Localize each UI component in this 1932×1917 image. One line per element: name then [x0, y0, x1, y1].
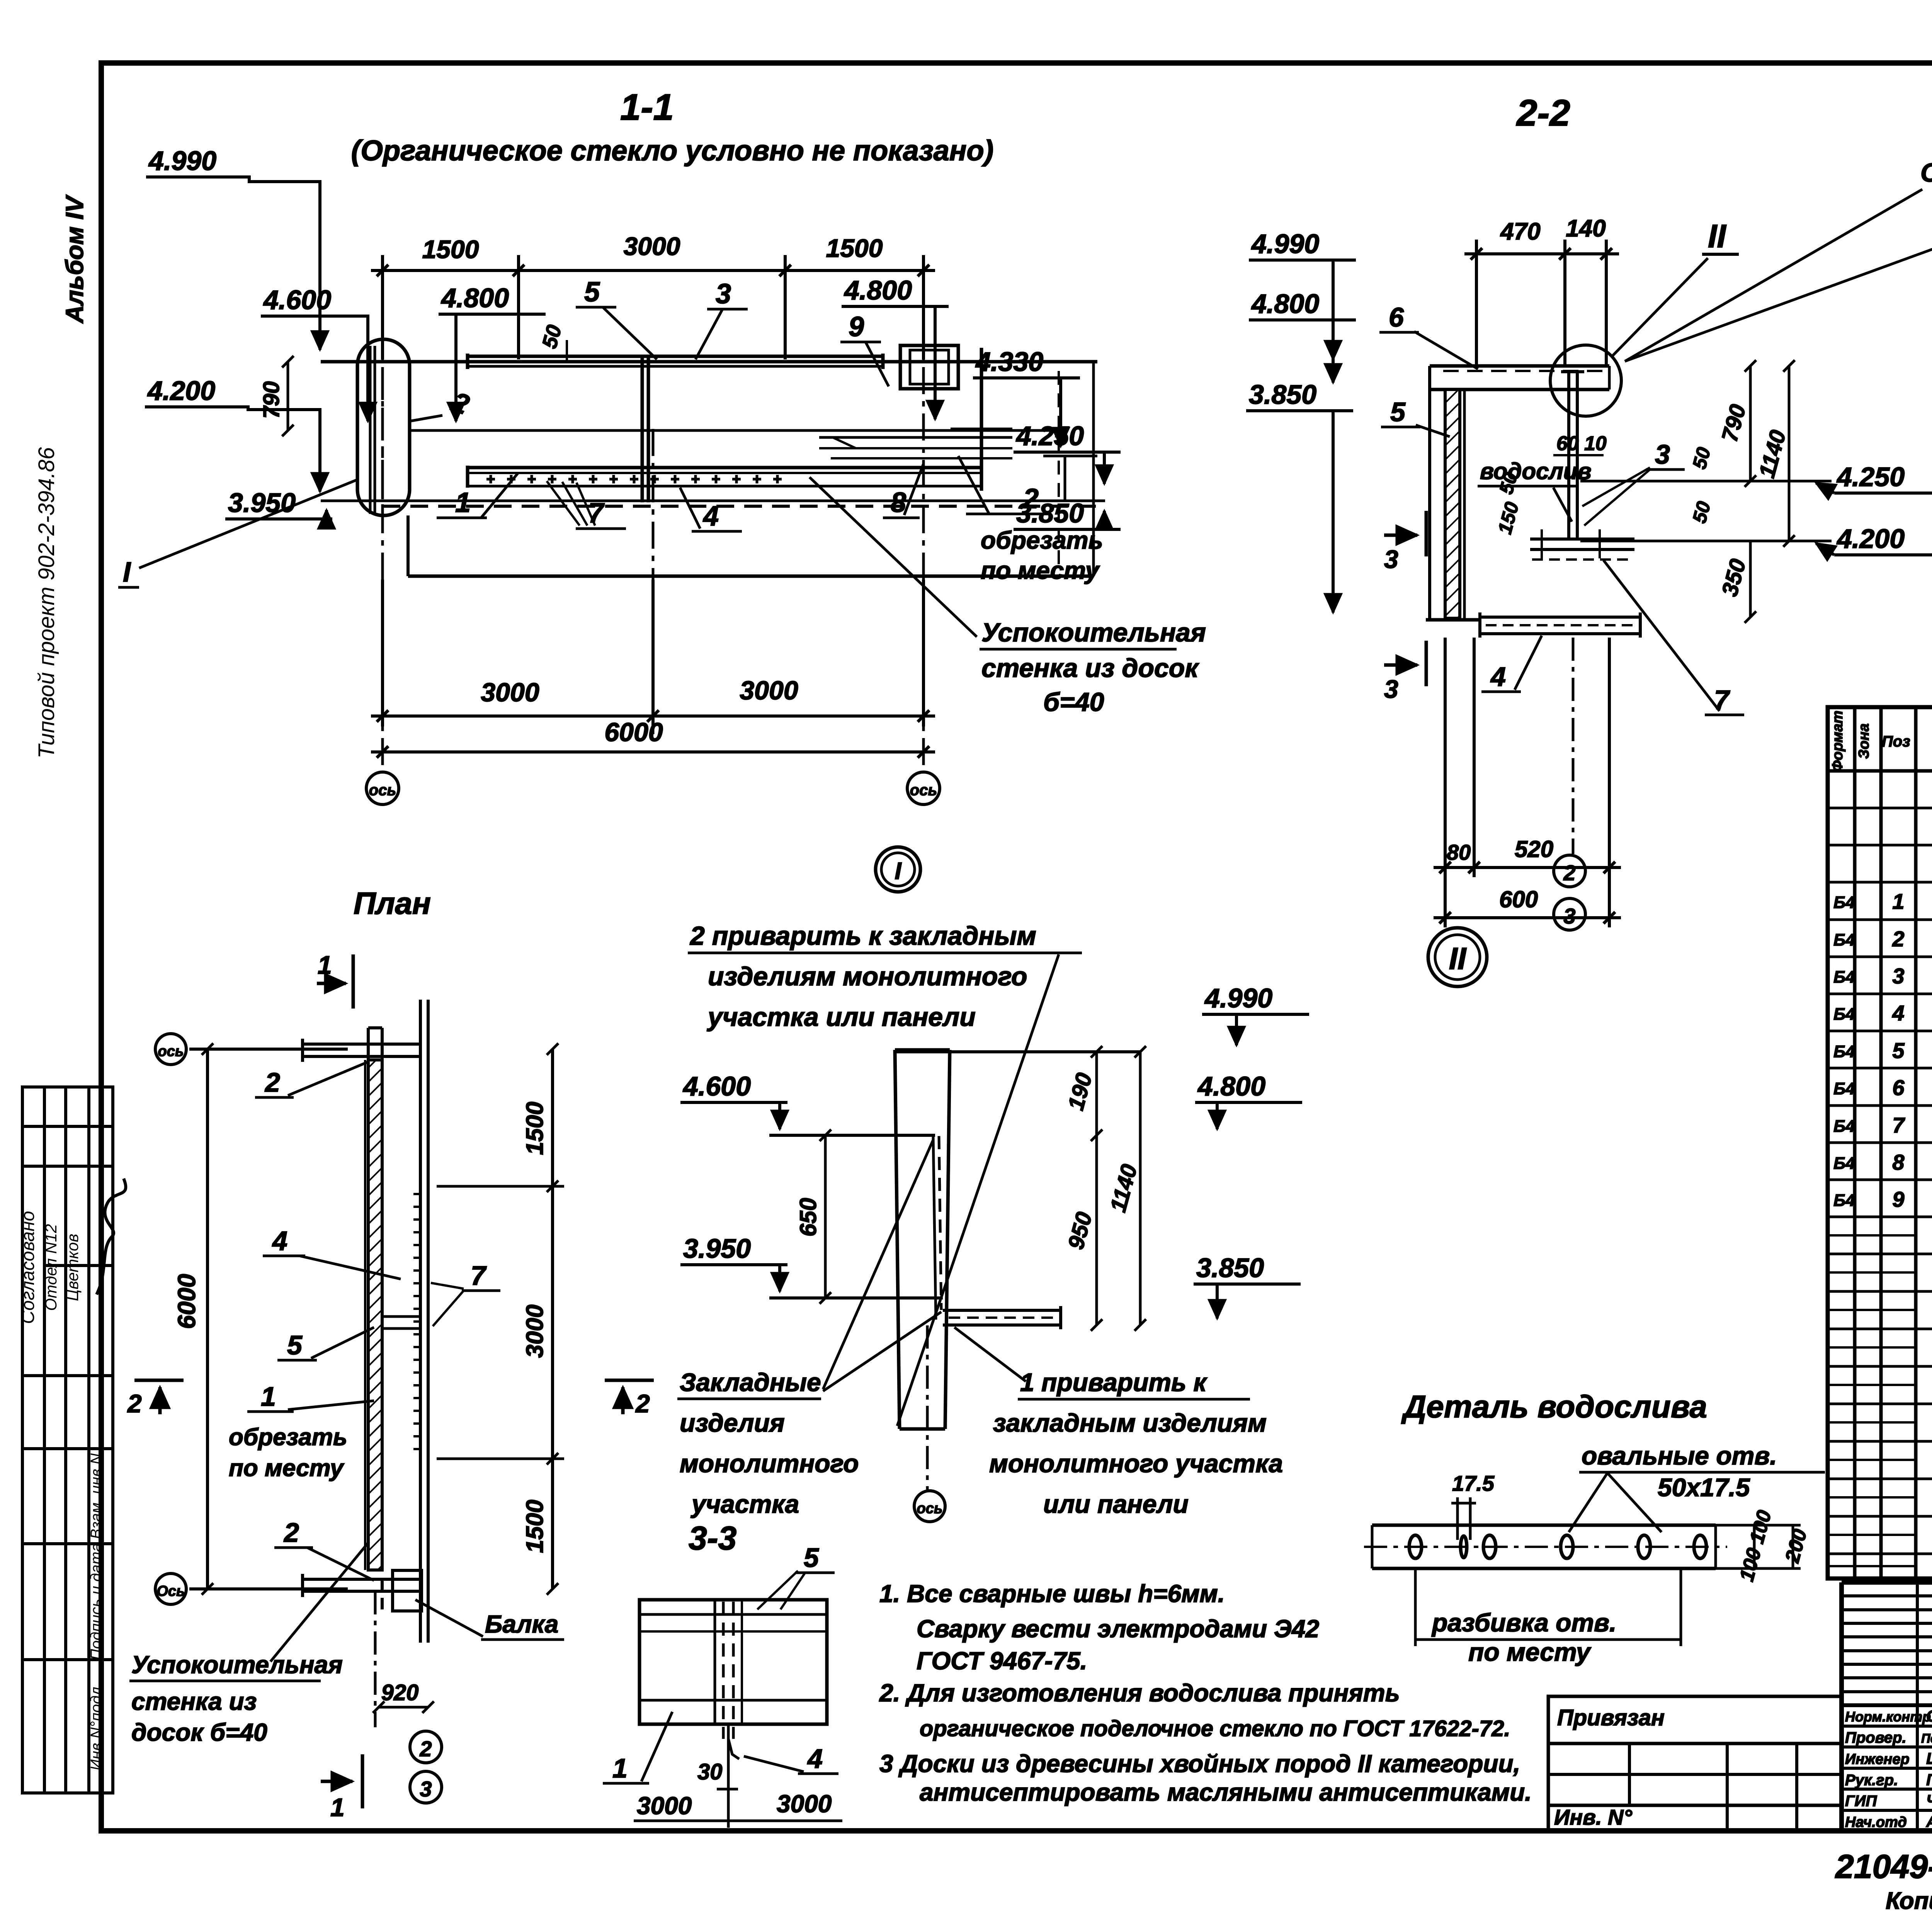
svg-text:Зона: Зона [1856, 723, 1872, 759]
2-2 roof slab [1430, 366, 1609, 390]
plan section marker 2 left [134, 1380, 184, 1414]
bottom dim 6000 [371, 718, 935, 758]
svg-text:Семенова: Семенова [1926, 1707, 1932, 1725]
2-2 small dims 50 [1494, 445, 1715, 536]
svg-text:Согласовано: Согласовано [18, 1211, 38, 1324]
svg-text:7: 7 [1892, 1113, 1905, 1137]
svg-text:2: 2 [283, 1517, 299, 1548]
right end assembly [980, 348, 983, 491]
svg-text:470: 470 [1500, 218, 1540, 245]
svg-text:7: 7 [1714, 685, 1730, 715]
svg-text:4.330: 4.330 [975, 347, 1043, 377]
lower channel item1 [468, 466, 981, 469]
svg-text:Отдел N12: Отдел N12 [42, 1224, 60, 1311]
mid dim 650 [795, 1129, 831, 1304]
svg-text:1: 1 [261, 1381, 276, 1412]
mid elevation level lines [769, 1052, 1140, 1298]
svg-text:1: 1 [612, 1753, 628, 1783]
деталь note овальные отв 50x17.5 [1569, 1441, 1825, 1532]
svg-text:9: 9 [1892, 1187, 1904, 1211]
2-2 detail mark II [1550, 218, 1739, 416]
svg-text:Успокоительная: Успокоительная [981, 618, 1206, 647]
svg-text:6000: 6000 [173, 1274, 201, 1329]
2-2 level line 4.200 [1580, 540, 1832, 543]
detail bubble II [1428, 928, 1487, 987]
svg-text:9: 9 [849, 311, 864, 342]
svg-text:1500: 1500 [522, 1102, 548, 1155]
svg-text:Формат: Формат [1830, 711, 1846, 772]
svg-text:Ось: Ось [156, 1583, 185, 1599]
elevation mark 4.800 left [439, 283, 546, 421]
leader label 3 [696, 279, 748, 359]
specification left sub rules materials zone [1828, 1235, 1916, 1566]
plan centerline to bottom [374, 1591, 377, 1727]
section 3-3 leader 4 [744, 1744, 838, 1774]
svg-text:5: 5 [1892, 1038, 1905, 1063]
svg-text:50х17.5: 50х17.5 [1658, 1473, 1750, 1502]
svg-text:Б4: Б4 [1833, 1042, 1855, 1061]
2-2 leader 6 [1379, 302, 1478, 369]
mid note Закладные изделия [677, 1140, 941, 1518]
leader label 7 multi [547, 481, 626, 529]
svg-text:Деталь водослива: Деталь водослива [1401, 1389, 1707, 1424]
detail bubble I [876, 847, 920, 892]
деталь dim 100 100 200 right [1716, 1508, 1811, 1584]
деталь oval holes [1409, 1535, 1706, 1558]
note: 2 приварить к закладным [688, 921, 1082, 1426]
svg-text:4.800: 4.800 [440, 283, 509, 313]
svg-text:Подпись и дата: Подпись и дата [88, 1543, 105, 1660]
svg-text:2. Для изготовления водослива: 2. Для изготовления водослива принять [879, 1679, 1400, 1707]
svg-text:3: 3 [1655, 439, 1670, 469]
svg-text:Б4: Б4 [1833, 1154, 1855, 1173]
деталь разбивка отв по месту [1414, 1568, 1681, 1666]
2-2 top dims 470/140 [1464, 215, 1619, 367]
mid elevation panel [895, 1050, 950, 1429]
svg-text:досок б=40: досок б=40 [131, 1718, 267, 1746]
svg-text:участка или панели: участка или панели [707, 1002, 976, 1032]
section 3-3 label 5 [757, 1543, 835, 1609]
svg-text:Привязан: Привязан [1557, 1705, 1665, 1730]
plan wall hatched board [365, 1060, 382, 1570]
mid elevation centreline to axis bubble [926, 1325, 929, 1490]
svg-text:2: 2 [1022, 483, 1039, 514]
section 3-3 dims 3000 3000 [634, 1724, 842, 1828]
plan rail double line with bolt ticks [413, 1000, 428, 1643]
svg-text:II: II [1708, 218, 1726, 254]
svg-text:6: 6 [1892, 1075, 1905, 1100]
2-2 elevation mark 4.200 [1816, 524, 1932, 555]
svg-text:1: 1 [455, 487, 471, 518]
svg-text:Б4: Б4 [1833, 1079, 1855, 1098]
section 3-3 dim 30 [697, 1759, 738, 1789]
svg-text:Чирков: Чирков [1926, 1791, 1932, 1810]
svg-text:21049-04 28: 21049-04 28 [1835, 1848, 1932, 1885]
svg-text:1500: 1500 [422, 235, 479, 264]
svg-text:по месту: по месту [229, 1455, 345, 1482]
svg-text:4.600: 4.600 [263, 285, 331, 315]
svg-text:4.990: 4.990 [148, 146, 216, 176]
svg-text:обрезать: обрезать [981, 526, 1103, 554]
svg-text:II: II [1449, 941, 1467, 976]
specification row lines [1828, 808, 1932, 1554]
elevation mark 4.990 left [146, 146, 320, 350]
svg-text:Поз: Поз [1882, 733, 1910, 750]
title block roles and names [1845, 1707, 1932, 1830]
svg-text:3.950: 3.950 [228, 488, 296, 518]
svg-text:ось: ось [910, 782, 937, 799]
2-2 dim 1140 right [1754, 360, 1795, 547]
svg-text:2-2: 2-2 [1516, 92, 1570, 134]
svg-text:3000: 3000 [522, 1305, 548, 1358]
svg-text:4: 4 [1892, 1001, 1904, 1025]
svg-text:3.950: 3.950 [683, 1233, 751, 1264]
2-2 leader 5 [1381, 397, 1450, 437]
mid note 1 приварить [954, 1327, 1283, 1518]
svg-text:1 приварить к: 1 приварить к [1020, 1368, 1208, 1397]
svg-text:ГОСТ 9467-75.: ГОСТ 9467-75. [917, 1647, 1087, 1675]
svg-text:6: 6 [1389, 302, 1404, 332]
svg-text:Типовой проект 902-2-394.86: Типовой проект 902-2-394.86 [34, 447, 59, 759]
2-2 elevation mark 4.990 [1249, 229, 1356, 359]
section 3-3 box [639, 1600, 827, 1759]
mid dim 190 [1063, 1046, 1102, 1141]
svg-text:3: 3 [1563, 904, 1575, 928]
svg-text:520: 520 [1515, 836, 1553, 862]
svg-text:1. Все сварные швы h=6мм.: 1. Все сварные швы h=6мм. [879, 1580, 1225, 1607]
title block upper-left revision grid [1842, 1582, 1932, 1831]
mid elevation mark 3.950 [680, 1233, 787, 1291]
svg-text:закладным изделиям: закладным изделиям [993, 1408, 1267, 1437]
svg-text:2 приварить к закладным: 2 приварить к закладным [689, 921, 1036, 951]
axis bubble right (ось) [907, 772, 940, 805]
svg-text:3000: 3000 [740, 676, 798, 705]
plan section marker 1 top [317, 954, 353, 1009]
svg-text:4.800: 4.800 [1197, 1071, 1265, 1101]
svg-text:Рук.гр.: Рук.гр. [1845, 1772, 1898, 1789]
title block outer [1842, 1582, 1932, 1831]
plan grid bubble 3 [410, 1771, 442, 1803]
svg-text:1: 1 [318, 951, 332, 979]
section 1-1 top dimension chain 1500/3000/1500 [371, 232, 935, 359]
svg-text:4.600: 4.600 [682, 1071, 751, 1101]
axis bubble left (ось) [366, 772, 399, 805]
leader label 2 right with note [958, 456, 1103, 584]
2-2 elevation mark 3.850 [1246, 379, 1353, 612]
plan 6000 dim [173, 1043, 348, 1595]
svg-text:Нач.отд: Нач.отд [1845, 1814, 1907, 1830]
svg-text:4: 4 [807, 1744, 823, 1774]
svg-text:I: I [123, 557, 131, 588]
деталь plate strip [1364, 1525, 1727, 1568]
plan leader label 1 + обрезать по месту [229, 1381, 374, 1482]
svg-text:обрезать: обрезать [229, 1424, 347, 1451]
plan section marker 1 bottom [321, 1754, 362, 1808]
svg-text:Органическое: Органическое [1920, 158, 1932, 187]
svg-text:1500: 1500 [522, 1500, 548, 1553]
2-2 left wall hatched [1426, 366, 1480, 620]
svg-text:по месту: по месту [1468, 1638, 1592, 1666]
svg-text:I: I [895, 858, 902, 885]
svg-text:2: 2 [635, 1389, 650, 1418]
plan note Успокоительная стенка из досок [129, 1542, 369, 1746]
svg-text:План: План [354, 886, 431, 920]
svg-text:4.250: 4.250 [1836, 462, 1905, 492]
svg-text:790: 790 [259, 381, 284, 419]
svg-text:2: 2 [1892, 927, 1904, 951]
2-2 leader 4 [1481, 636, 1542, 692]
mid elevation bottom bracket [943, 1306, 1061, 1329]
svg-text:Провер.: Провер. [1845, 1729, 1906, 1746]
vertical dim 790 [259, 356, 294, 436]
svg-text:стенка из: стенка из [131, 1687, 257, 1715]
svg-text:Балка: Балка [485, 1610, 558, 1638]
2-2 dim 350 [1717, 541, 1756, 623]
svg-text:3.850: 3.850 [1249, 379, 1316, 410]
svg-text:3-3: 3-3 [689, 1520, 736, 1557]
2-2 bottom dims 80 520 600 [1434, 638, 1621, 927]
bottom dims 3000 3000 [371, 580, 935, 726]
svg-text:ГИП: ГИП [1845, 1793, 1877, 1810]
svg-text:Инв.N°подл.: Инв.N°подл. [88, 1682, 105, 1771]
row поз1 швеллер [1833, 889, 1932, 913]
svg-text:30: 30 [697, 1759, 723, 1784]
2-2 elevation mark 4.250 [1816, 462, 1932, 493]
2-2 section marker 3 lower [1384, 641, 1426, 686]
mid dim 1140 [1105, 1046, 1146, 1331]
svg-text:2: 2 [419, 1737, 432, 1761]
svg-text:ось: ось [158, 1043, 184, 1060]
specification table frame [1828, 707, 1932, 1579]
svg-text:17.5: 17.5 [1452, 1471, 1495, 1495]
svg-text:4.250: 4.250 [1015, 421, 1084, 451]
section cut mark I with leader [118, 479, 359, 588]
svg-text:3000: 3000 [624, 232, 680, 260]
elevation mark 4.330 [973, 347, 1080, 446]
left margin stamp table lower (Инв/Подпись/Взам) [22, 1449, 113, 1793]
plan leader label 7 [431, 1260, 500, 1326]
svg-text:2: 2 [1563, 861, 1575, 885]
mid elevation mark 3.850 [1194, 1253, 1301, 1318]
2-2 centerline down to bubbles [1572, 638, 1575, 854]
2-2 weir plate assembly [1530, 372, 1634, 560]
svg-text:разбивка отв.: разбивка отв. [1431, 1608, 1616, 1637]
svg-text:Альбом IV: Альбом IV [61, 194, 88, 324]
svg-text:Инженер: Инженер [1845, 1751, 1910, 1767]
leader label 9 [840, 311, 889, 386]
axis dash-dot lines [383, 274, 923, 773]
leader label 2 rotated [410, 386, 473, 421]
svg-text:4: 4 [702, 501, 719, 532]
svg-text:4.800: 4.800 [844, 275, 912, 305]
row поз3 уголок [1833, 964, 1932, 988]
svg-text:3000: 3000 [481, 678, 539, 707]
plan grid bubble 2 [410, 1731, 442, 1763]
row поз4 уголок [1833, 1001, 1932, 1025]
2-2 elevation mark 4.800 [1249, 289, 1356, 383]
svg-text:650: 650 [795, 1198, 821, 1237]
plan dim 920 [373, 1680, 434, 1713]
svg-text:3000: 3000 [637, 1792, 692, 1820]
plan leader label 2 bottom [274, 1517, 374, 1580]
elevation mark 4.200 [145, 376, 320, 492]
svg-text:Цветков: Цветков [63, 1234, 82, 1301]
row поз8 полоса [1833, 1148, 1932, 1181]
svg-text:Успокоительная: Успокоительная [131, 1651, 343, 1679]
2-2 grid bubble 3 [1554, 898, 1585, 930]
svg-text:3: 3 [420, 1777, 432, 1801]
svg-text:6000: 6000 [604, 718, 663, 747]
svg-text:1: 1 [1892, 889, 1904, 913]
svg-text:монолитного участка: монолитного участка [989, 1449, 1283, 1478]
деталь dim 17.5 [1451, 1471, 1495, 1540]
svg-text:920: 920 [381, 1680, 419, 1705]
plan leader label 2 top [255, 1061, 369, 1097]
svg-text:органическое поделочное стекло: органическое поделочное стекло по ГОСТ 1… [920, 1716, 1510, 1741]
svg-text:б=40: б=40 [1043, 687, 1104, 717]
2-2 leader 3 [1582, 439, 1685, 526]
svg-text:Норм.контр: Норм.контр [1845, 1709, 1931, 1725]
svg-text:Инв. N°: Инв. N° [1554, 1805, 1632, 1829]
leader label 5 [576, 277, 657, 359]
svg-text:Б4: Б4 [1833, 1191, 1855, 1210]
small dim 50 rotated [538, 323, 567, 361]
svg-text:1: 1 [330, 1793, 345, 1822]
svg-text:Б4: Б4 [1833, 893, 1855, 912]
mid elevation axis bubble [914, 1491, 945, 1522]
svg-text:изделия: изделия [680, 1408, 785, 1437]
2-2 small dims 60 10 [1553, 432, 1607, 455]
svg-text:Б4: Б4 [1833, 1005, 1855, 1024]
svg-text:Б4: Б4 [1833, 968, 1855, 987]
svg-text:3: 3 [1384, 675, 1398, 703]
mid dim 950 [1063, 1135, 1102, 1331]
mid elevation mark 4.800 [1195, 1071, 1302, 1129]
svg-text:5: 5 [1390, 397, 1406, 427]
svg-text:4.200: 4.200 [1836, 524, 1905, 554]
svg-text:Цветкова: Цветкова [1926, 1749, 1932, 1767]
top channel item5 [468, 355, 883, 358]
elevation mark 4.800 right [842, 275, 949, 419]
svg-text:Гарбуз: Гарбуз [1926, 1771, 1932, 1789]
svg-text:4.800: 4.800 [1251, 289, 1319, 319]
svg-text:10: 10 [1584, 432, 1607, 455]
svg-text:участка: участка [690, 1490, 799, 1518]
svg-text:Петропавловская: Петропавловская [1921, 1731, 1932, 1745]
section 3-3 leader 1 [603, 1712, 672, 1783]
svg-text:по месту: по месту [981, 556, 1100, 584]
svg-text:3: 3 [1384, 545, 1398, 573]
svg-text:3: 3 [716, 279, 731, 310]
svg-text:Б4: Б4 [1833, 930, 1855, 949]
2-2 leader 7 [1604, 560, 1744, 715]
title block lower row lines [1842, 1726, 1932, 1810]
plan axis bubble top [155, 1034, 186, 1065]
mid section marker 2 [605, 1380, 654, 1414]
svg-text:Б4: Б4 [1833, 1117, 1855, 1136]
svg-text:8: 8 [1892, 1150, 1905, 1174]
2-2 dim 790 right [1717, 360, 1756, 487]
2-2 section marker 3 upper [1384, 511, 1426, 556]
svg-text:Закладные: Закладные [680, 1368, 821, 1397]
label Органическое поделочное стекло with leaders [1625, 158, 1932, 419]
2-2 level line 4.250 [1580, 480, 1832, 483]
svg-text:3000: 3000 [777, 1790, 832, 1818]
svg-text:Копировал.Синицына: Копировал.Синицына [1886, 1888, 1932, 1914]
svg-text:2: 2 [127, 1389, 142, 1418]
left margin stamp table upper (Согласовано) [22, 1087, 113, 1449]
elevation mark 3.950 [225, 488, 332, 519]
svg-text:4: 4 [1490, 662, 1506, 692]
svg-text:Сварку вести электродами Э42: Сварку вести электродами Э42 [917, 1615, 1319, 1643]
specification header texts [1830, 711, 1932, 772]
mid elevation mark 4.600 [680, 1071, 787, 1129]
svg-text:овальные отв.: овальные отв. [1582, 1441, 1777, 1470]
elevation mark 4.250 [1014, 421, 1121, 484]
svg-text:7: 7 [471, 1260, 487, 1291]
mid splice item4 [641, 355, 644, 502]
svg-text:5: 5 [584, 277, 600, 308]
plan bottom tee connection [303, 1570, 422, 1611]
leader label 4 [680, 488, 742, 532]
svg-text:изделиям монолитного: изделиям монолитного [708, 962, 1027, 991]
svg-text:80: 80 [1447, 840, 1471, 864]
leader label 1 [437, 473, 518, 518]
plan leader label 4 [263, 1226, 401, 1279]
notes list 1..3 [879, 1580, 1532, 1806]
2-2 floor bracket [1480, 612, 1640, 638]
svg-text:ось: ось [369, 782, 396, 799]
2-2 label водослив [1478, 458, 1592, 522]
svg-text:ось: ось [917, 1500, 943, 1517]
svg-text:(Органическое стекло условно н: (Органическое стекло условно не показано… [351, 134, 994, 167]
svg-text:Взам. инв.N: Взам. инв.N [88, 1453, 105, 1539]
row поз7 болт [1833, 1113, 1932, 1137]
svg-text:Альтшуллер: Альтшуллер [1926, 1813, 1932, 1830]
svg-text:4.990: 4.990 [1204, 983, 1272, 1013]
svg-text:3 Доски из древесины хвойных: 3 Доски из древесины хвойных пород II ка… [879, 1750, 1520, 1778]
row поз9 болт [1833, 1187, 1932, 1211]
svg-text:5: 5 [287, 1330, 303, 1360]
svg-text:3: 3 [1892, 964, 1904, 988]
section 1-1 main assembly linework [321, 345, 1105, 576]
svg-text:5: 5 [804, 1543, 819, 1573]
привязан table [1548, 1696, 1842, 1830]
svg-text:стенка из досок: стенка из досок [981, 653, 1199, 683]
plan mid connection [382, 1317, 420, 1328]
row поз5 швеллер [1833, 1038, 1932, 1063]
row поз6 уголок [1833, 1075, 1932, 1100]
plan axis bubble bottom [155, 1573, 186, 1604]
svg-text:1500: 1500 [826, 234, 883, 262]
plan leader label 5 [277, 1327, 374, 1360]
elevation mark 4.600 [261, 285, 368, 421]
svg-text:1-1: 1-1 [620, 87, 674, 128]
svg-text:60: 60 [1556, 432, 1579, 455]
mid elevation mark 4.990 [1202, 983, 1309, 1045]
svg-text:600: 600 [1499, 886, 1538, 912]
svg-text:140: 140 [1566, 215, 1605, 242]
svg-text:4.200: 4.200 [147, 376, 215, 406]
elevation mark 3.850 [1014, 498, 1121, 529]
svg-text:3.850: 3.850 [1196, 1253, 1264, 1283]
svg-text:монолитного: монолитного [680, 1449, 859, 1478]
plan right dim chain 1500/3000/1500 [437, 1043, 564, 1595]
plan label Балка [415, 1600, 564, 1640]
2-2 grid bubble 2 [1554, 855, 1585, 887]
plan top tee connection [303, 1028, 420, 1062]
weld plus marks row [486, 475, 782, 483]
